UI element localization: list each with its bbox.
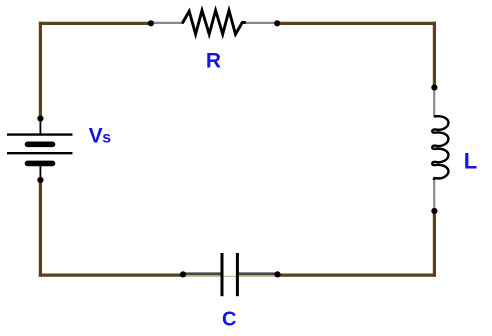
wire left lower (brown): [39, 180, 42, 277]
lead capacitor right (dark gray): [239, 272, 276, 275]
node dot resistor left: [148, 20, 154, 26]
svg-text:R: R: [206, 50, 221, 73]
resistor R zigzag: [183, 10, 245, 34]
wire bottom-left (brown): [39, 274, 184, 277]
node dot capacitor left: [180, 271, 186, 277]
lead resistor left (gray): [153, 22, 185, 24]
inductor L coil: [432, 116, 448, 180]
battery Vs connector bottom: [39, 164, 41, 180]
svg-text:L: L: [464, 148, 477, 173]
capacitor C plate right: [236, 253, 239, 296]
node dot battery top: [37, 115, 43, 121]
wire right upper (brown): [433, 22, 436, 88]
svg-text:V: V: [89, 125, 103, 148]
svg-text:C: C: [222, 309, 236, 331]
battery Vs long plate 2: [7, 152, 73, 154]
lead capacitor tan underlay: [185, 275, 276, 277]
battery Vs long plate 1: [7, 133, 73, 135]
wire left upper (brown): [39, 22, 42, 119]
wire bottom-right (brown): [277, 274, 436, 277]
wire right lower (brown): [433, 211, 436, 277]
lead inductor top (gray): [433, 89, 435, 117]
capacitor C plate left: [221, 253, 224, 296]
lead resistor right (gray): [244, 22, 276, 24]
battery Vs short thick plate 1: [28, 142, 53, 148]
node dot inductor top: [431, 84, 437, 90]
node dot capacitor right: [274, 271, 280, 277]
node dot battery bottom: [37, 177, 43, 183]
node dot resistor right: [274, 20, 280, 26]
wire top-right (brown): [277, 22, 436, 25]
battery Vs short thick plate 2: [28, 161, 53, 167]
lead capacitor left (dark gray): [185, 272, 221, 275]
wire top-left (brown): [39, 22, 152, 25]
node dot inductor bottom: [431, 208, 437, 214]
lead inductor bottom (gray): [433, 180, 435, 210]
svg-text:s: s: [102, 129, 111, 146]
battery Vs connector top: [39, 119, 41, 134]
